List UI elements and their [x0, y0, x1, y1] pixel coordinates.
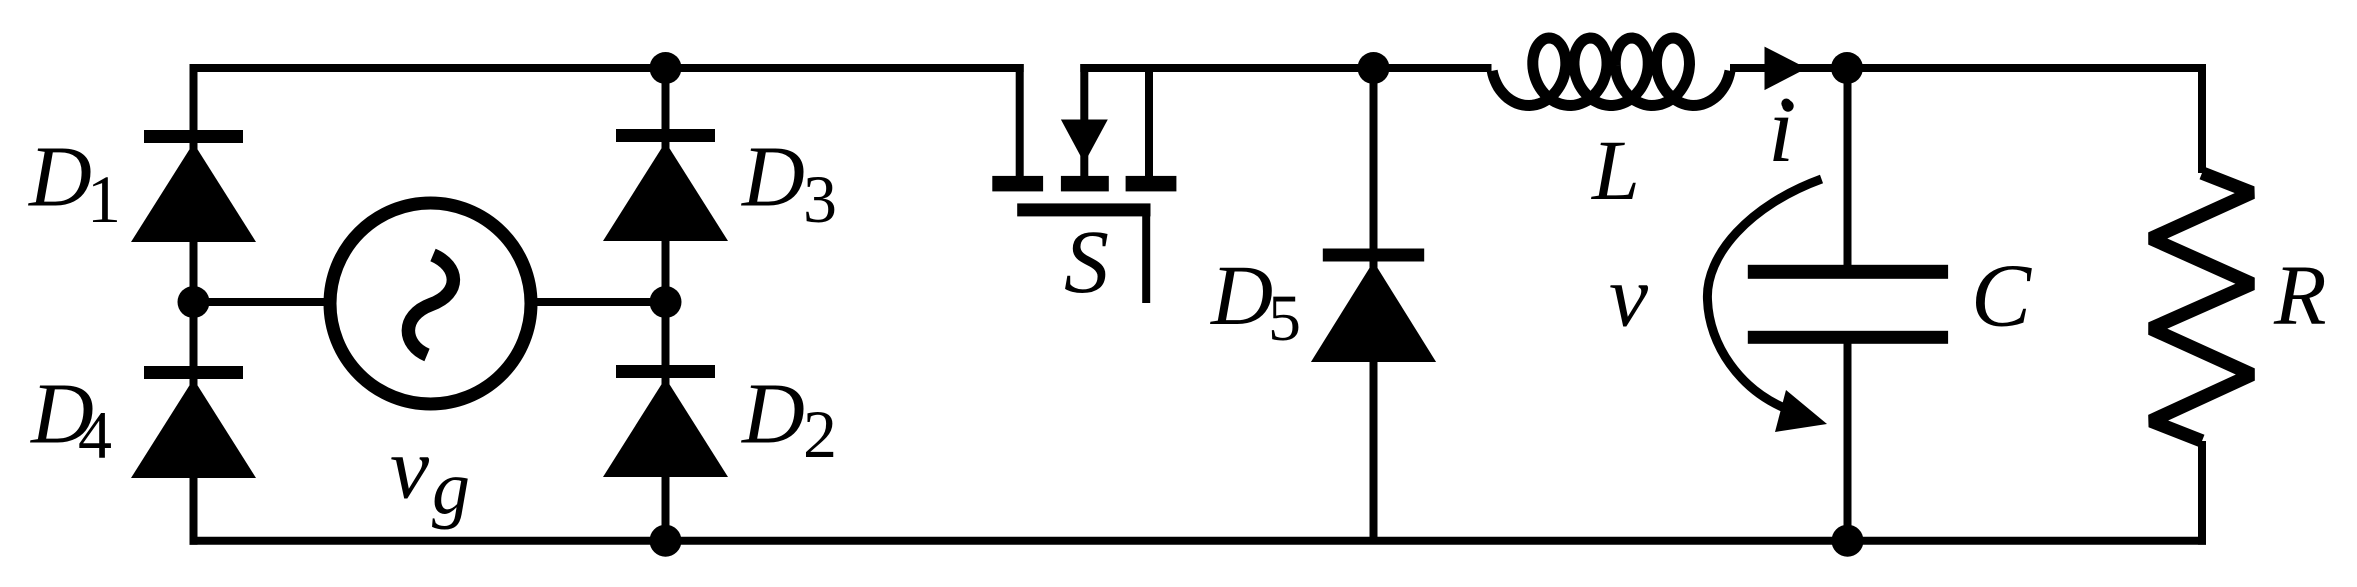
resistor R lead bottom [2198, 441, 2206, 545]
inductor L [1492, 38, 1730, 106]
svg-text:v: v [390, 421, 430, 518]
label L [1590, 122, 1640, 218]
mosfet drain lead [1016, 64, 1024, 176]
node bridge right bottom [650, 525, 682, 557]
label D5 [1210, 247, 1301, 355]
wire top-right segment (MOSFET to resistor) [1080, 64, 2206, 72]
label i [1768, 78, 1794, 182]
diode D1 [131, 130, 256, 242]
label D4 [30, 365, 112, 473]
svg-text:R: R [2273, 247, 2327, 343]
diode D2 [603, 365, 728, 477]
svg-text:S: S [1064, 213, 1109, 312]
resistor R lead top [2198, 68, 2206, 173]
svg-text:g: g [432, 446, 470, 530]
diode D3 [603, 129, 728, 241]
label D2 [741, 365, 837, 472]
svg-text:C: C [1971, 246, 2032, 345]
mosfet channel bars [992, 176, 1176, 192]
mosfet gate lead [1142, 210, 1150, 303]
wire left vertical (bridge left branch) [190, 64, 198, 545]
diode D5 [1311, 249, 1436, 363]
label R [2273, 247, 2327, 343]
wire capacitor lower lead [1844, 337, 1852, 541]
wire right branch vertical (D3/D2 bridge) [662, 68, 670, 541]
node capacitor bottom [1832, 525, 1864, 557]
svg-text:D: D [741, 365, 805, 462]
resistor R zigzag [2151, 173, 2252, 441]
label D3 [741, 128, 837, 238]
voltage arrow v arc [1707, 179, 1827, 432]
wire capacitor upper lead [1844, 68, 1852, 272]
mosfet source lead [1145, 64, 1153, 176]
diode D4 [131, 366, 256, 478]
svg-text:D: D [741, 128, 805, 225]
label C [1971, 246, 2032, 345]
label S [1064, 213, 1109, 312]
svg-text:D: D [28, 128, 92, 225]
wire bottom rail [190, 537, 2207, 545]
label D1 [28, 128, 121, 238]
mosfet body arrowhead [1061, 120, 1108, 179]
mosfet body arrow lead [1080, 64, 1088, 122]
svg-text:i: i [1768, 78, 1794, 182]
label vg [390, 421, 470, 531]
capacitor C plates [1748, 265, 1948, 344]
svg-text:2: 2 [803, 396, 837, 472]
current arrow i [1765, 47, 1807, 91]
wire top-left segment (bridge output to MOSFET drain) [194, 64, 1024, 72]
svg-text:1: 1 [87, 161, 121, 237]
node bridge right top [650, 52, 682, 84]
wire bridge mid-right [533, 298, 666, 306]
node bridge right mid [650, 286, 682, 318]
wire D5 branch [1370, 68, 1378, 541]
svg-text:v: v [1609, 248, 1649, 345]
svg-text:5: 5 [1268, 282, 1301, 355]
svg-text:3: 3 [803, 161, 837, 237]
svg-text:L: L [1590, 122, 1640, 218]
label v [1609, 248, 1649, 345]
svg-text:D: D [1210, 247, 1273, 343]
ac source vg circle [330, 203, 531, 404]
node bridge left mid [178, 286, 210, 318]
svg-text:4: 4 [78, 397, 112, 473]
node D5 top [1358, 52, 1390, 84]
node capacitor top [1831, 52, 1863, 84]
wire bridge mid-left [194, 298, 329, 306]
mosfet gate bar [1017, 203, 1150, 216]
